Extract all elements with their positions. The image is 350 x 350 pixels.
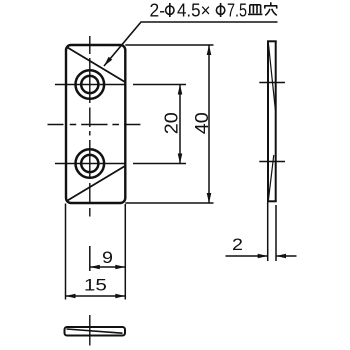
- svg-text:2-: 2-: [150, 0, 166, 20]
- vertical center line through holes: [89, 36, 91, 217]
- svg-text:9: 9: [102, 248, 113, 267]
- arrow 40 bottom: [207, 193, 212, 203]
- extension line right (2 dim): [275, 205, 277, 261]
- side view left edge: [267, 41, 269, 201]
- side view bottom taper line: [268, 155, 273, 200]
- arrow 9 right: [115, 265, 125, 270]
- front view bottom taper diagonal: [68, 166, 126, 201]
- dimension line 15: [66, 295, 126, 297]
- extension line right (15 / 9 dim): [124, 204, 126, 300]
- leader line with underline of note: [104, 22, 278, 66]
- side view bottom cap: [267, 200, 277, 202]
- arrow 15 right: [115, 294, 125, 299]
- arrow 40 top: [207, 45, 212, 55]
- dimension line 40: [208, 45, 210, 203]
- bottom view vertical center line: [89, 315, 91, 346]
- front view top taper diagonal: [68, 48, 126, 83]
- extension line hole2 (20 dim): [133, 163, 186, 165]
- side view hole 2 center tick: [259, 161, 285, 163]
- hole 2 horizontal center line: [55, 163, 127, 165]
- extension line left (15 dim): [65, 204, 67, 300]
- dimension line 20: [179, 85, 181, 164]
- side view top cap: [267, 40, 277, 42]
- arrow 2 left (pointing right): [258, 254, 268, 259]
- middle horizontal center line: [48, 124, 141, 126]
- side view right edge: [275, 41, 277, 201]
- side view hole 1 center tick: [259, 82, 285, 84]
- kanji ana (hole): [264, 2, 277, 15]
- extension line hole1 (20 dim): [133, 84, 186, 86]
- note text: 2-phi4.5 x phi7.5 countersink: [150, 0, 278, 20]
- hole 1 horizontal center line: [55, 84, 127, 86]
- leader arrowhead: [104, 57, 112, 66]
- phi symbol 1: [166, 3, 174, 17]
- dimension line 2 left part: [226, 255, 268, 257]
- extension line hole center (9 dim): [89, 246, 91, 271]
- hole 2 drill inner circle: [81, 155, 98, 172]
- arrow 20 top: [178, 85, 183, 95]
- extension line bottom (40 dim): [125, 202, 213, 204]
- arrow 2 right (pointing left): [276, 254, 286, 259]
- kanji sara (dish): [248, 5, 262, 15]
- extension line left (2 dim): [267, 202, 269, 261]
- svg-text:20: 20: [162, 112, 182, 134]
- svg-text:4.5×: 4.5×: [177, 0, 211, 20]
- hole 2 countersink outer circle: [76, 149, 105, 178]
- plate front view outline: [66, 45, 125, 203]
- arrow 15 left: [66, 294, 76, 299]
- hole 1 countersink outer circle: [76, 70, 105, 99]
- bottom view outline: [65, 327, 126, 336]
- extension line top (40 dim): [125, 44, 213, 46]
- dimension line 9: [90, 266, 126, 268]
- hole 1 drill inner circle: [81, 76, 98, 93]
- bottom view taper diagonal: [67, 329, 123, 333]
- svg-text:15: 15: [84, 276, 107, 295]
- svg-text:7.5: 7.5: [227, 0, 247, 20]
- arrow 9 left: [90, 265, 100, 270]
- phi symbol 2: [216, 3, 224, 17]
- side view top taper line: [268, 43, 275, 111]
- svg-text:40: 40: [192, 112, 212, 134]
- arrow 20 bottom: [178, 154, 183, 164]
- svg-text:2: 2: [232, 235, 243, 254]
- dimension line 2 right part: [276, 255, 297, 257]
